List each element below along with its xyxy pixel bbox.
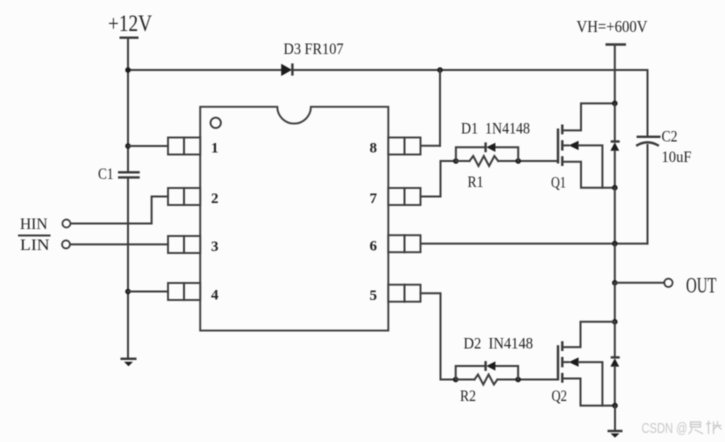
node: junction rail / pin 1 wire bbox=[125, 143, 131, 149]
svg-text:OUT: OUT bbox=[686, 273, 717, 298]
diode D3 bbox=[281, 63, 292, 76]
svg-text:C1: C1 bbox=[98, 166, 114, 183]
svg-text:D2 IN4148: D2 IN4148 bbox=[464, 336, 534, 353]
wire: bootstrap vertical to pin 8 bbox=[421, 70, 440, 146]
VH=+600V supply symbol bbox=[577, 17, 649, 45]
node: pin6 row / rail junction bbox=[612, 241, 618, 247]
svg-text:R1: R1 bbox=[468, 174, 484, 191]
IC U1 body (8-pin DIP) bbox=[200, 107, 388, 331]
node: Q1 drain junction on rail bbox=[612, 101, 618, 107]
svg-text:+12V: +12V bbox=[108, 11, 152, 36]
diode: Q1 body diode on rail bbox=[610, 142, 619, 151]
svg-text:2: 2 bbox=[211, 191, 219, 207]
pin 2 pad bbox=[168, 188, 200, 205]
node: R2/D2 left junction bbox=[453, 377, 459, 383]
svg-text:8: 8 bbox=[370, 141, 378, 157]
watermark CSDN bbox=[642, 420, 722, 437]
terminal OUT bbox=[664, 273, 717, 298]
wire: rail Q1 drain to body diode bbox=[614, 103, 616, 141]
svg-text:Q1: Q1 bbox=[551, 175, 566, 192]
wire: LIN to pin 3 bbox=[70, 243, 168, 245]
wire: pin 1 to rail bbox=[128, 145, 168, 147]
terminal LIN bbox=[20, 237, 70, 254]
svg-text:7: 7 bbox=[370, 191, 378, 207]
capacitor C1 bbox=[118, 172, 140, 177]
terminal HIN bbox=[20, 216, 70, 233]
wire: rail diode to Q1 source junction bbox=[614, 151, 616, 188]
+12V supply symbol bbox=[108, 11, 152, 38]
wire: pin 6 to rail and C2 bottom bbox=[421, 243, 648, 245]
ground (right) bbox=[608, 431, 623, 438]
wire: rail Q2 drain to body diode bbox=[614, 322, 616, 357]
node: R1/D1 right junction bbox=[515, 158, 521, 164]
diode: Q2 body diode on rail bbox=[610, 357, 619, 366]
transistor Q1 (N-MOSFET) bbox=[558, 103, 615, 187]
wire: rail to ground bbox=[614, 406, 616, 431]
svg-text:C2: C2 bbox=[662, 129, 678, 146]
resistor R1 bbox=[470, 156, 499, 166]
wire: R2 row right segment to Q2 gate bbox=[497, 379, 558, 381]
node: Q2 drain junction on rail bbox=[612, 319, 618, 325]
wire: OUT junction to terminal bbox=[615, 282, 664, 284]
svg-text:LIN: LIN bbox=[20, 237, 50, 254]
svg-text:VH=+600V: VH=+600V bbox=[577, 17, 649, 36]
wire: pin 7 to R1/D1 network bbox=[421, 161, 456, 197]
svg-text:6: 6 bbox=[370, 239, 378, 255]
wire: D1 branch loop bbox=[456, 147, 518, 161]
wire: HIN to pin 2 bbox=[71, 197, 168, 224]
overline of LIN bbox=[19, 235, 50, 237]
capacitor C2 bbox=[636, 70, 660, 244]
transistor Q2 (N-MOSFET) bbox=[558, 322, 615, 406]
diode D1 bbox=[486, 142, 496, 152]
svg-text:HIN: HIN bbox=[20, 216, 48, 233]
pin 1 pad bbox=[168, 138, 200, 155]
svg-text:10uF: 10uF bbox=[662, 149, 692, 166]
node: Q1 source junction on rail bbox=[612, 185, 618, 191]
svg-text:R2: R2 bbox=[460, 388, 476, 405]
svg-text:D3 FR107: D3 FR107 bbox=[284, 41, 344, 58]
pin 4 pad bbox=[168, 283, 200, 300]
pin 7 pad bbox=[388, 188, 420, 205]
resistor R2 bbox=[475, 375, 498, 385]
wire: pin 5 to R2/D2 network bbox=[421, 293, 456, 379]
diode D2 bbox=[486, 361, 496, 371]
node: junction +12V rail / top wire bbox=[125, 67, 131, 73]
wire: top horizontal from +12V to D3 and on to C2 corner bbox=[128, 69, 648, 71]
svg-text:1: 1 bbox=[211, 141, 219, 157]
wire: rail pin6 row to OUT junction bbox=[614, 244, 616, 283]
svg-text:CSDN @: CSDN @ bbox=[642, 420, 688, 437]
node: junction rail / pin 4 wire bbox=[125, 289, 131, 295]
wire: rail Q1 source to pin6 row bbox=[614, 188, 616, 244]
wire: pin 4 to rail bbox=[128, 291, 168, 293]
wire: rail diode to Q2 source junction bbox=[614, 367, 616, 406]
wire: left +12V rail (x=128) bbox=[127, 38, 129, 359]
pin 8 pad bbox=[388, 138, 420, 155]
node: Q2 source junction on rail bbox=[612, 403, 618, 409]
wire: R2 row left segment bbox=[456, 379, 475, 381]
node: R2/D2 right junction bbox=[515, 377, 521, 383]
svg-text:5: 5 bbox=[370, 288, 378, 304]
svg-text:4: 4 bbox=[211, 288, 219, 304]
pin 6 pad bbox=[388, 235, 420, 252]
pin 5 pad bbox=[388, 285, 420, 302]
wire: R1 row left segment bbox=[456, 160, 470, 162]
node: OUT junction bbox=[612, 280, 618, 286]
wire: VH drop to Q1 drain bbox=[614, 45, 616, 104]
wire: R1 row right segment to Q1 gate bbox=[498, 160, 558, 162]
node: junction top wire / bootstrap drop bbox=[437, 67, 443, 73]
node: R1/D1 left junction bbox=[453, 158, 459, 164]
svg-text:D1 1N4148: D1 1N4148 bbox=[461, 121, 530, 138]
wire: rail OUT junction to Q2 drain bbox=[614, 283, 616, 322]
svg-text:3: 3 bbox=[211, 239, 219, 255]
ground (left) bbox=[121, 359, 137, 366]
svg-text:Q2: Q2 bbox=[552, 388, 568, 405]
wire: D2 branch loop bbox=[456, 366, 518, 380]
pin 3 pad bbox=[168, 236, 200, 253]
